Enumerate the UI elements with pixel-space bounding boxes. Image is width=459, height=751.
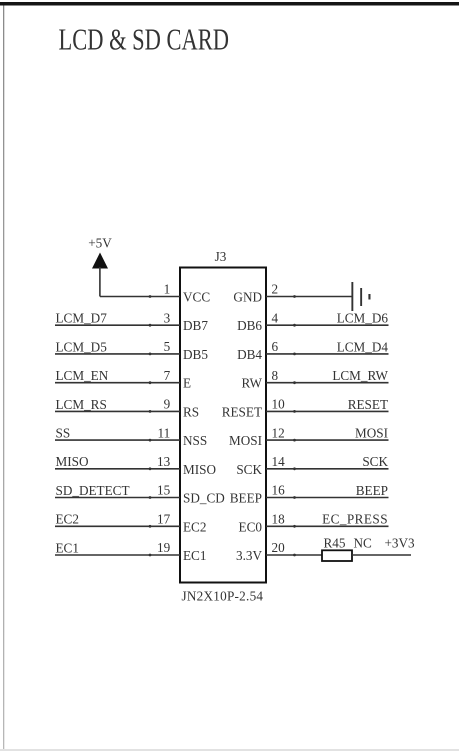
svg-text:LCM_D7: LCM_D7	[56, 311, 108, 326]
svg-text:2: 2	[272, 282, 279, 297]
svg-text:RW: RW	[241, 376, 262, 391]
wire net LCM_D7 to pin 3	[55, 324, 180, 327]
svg-text:NC: NC	[354, 536, 373, 551]
svg-text:13: 13	[157, 454, 171, 469]
svg-text:LCM_RS: LCM_RS	[56, 397, 107, 412]
svg-text:EC_PRESS: EC_PRESS	[322, 512, 388, 527]
svg-text:6: 6	[272, 339, 279, 354]
svg-text:9: 9	[164, 397, 171, 412]
svg-text:LCM_EN: LCM_EN	[56, 368, 109, 383]
svg-text:7: 7	[164, 368, 171, 383]
svg-text:BEEP: BEEP	[356, 483, 388, 498]
svg-text:DB4: DB4	[237, 347, 262, 362]
svg-text:EC0: EC0	[239, 519, 263, 534]
svg-text:14: 14	[272, 454, 286, 469]
wire pin 12 to net MOSI	[266, 439, 389, 442]
svg-text:+3V3: +3V3	[385, 536, 416, 551]
svg-text:DB7: DB7	[183, 318, 208, 333]
wire R45 to +3V3	[352, 554, 411, 556]
wire net LCM_D5 to pin 5	[55, 353, 180, 356]
svg-text:15: 15	[157, 483, 171, 498]
svg-text:SD_DETECT: SD_DETECT	[56, 483, 130, 498]
svg-text:MOSI: MOSI	[355, 426, 388, 441]
svg-text:LCD & SD CARD: LCD & SD CARD	[59, 22, 230, 57]
svg-text:19: 19	[157, 540, 171, 555]
wire pin 2 to ground	[266, 295, 352, 298]
svg-text:BEEP: BEEP	[230, 491, 262, 506]
svg-text:18: 18	[272, 512, 286, 527]
svg-text:SS: SS	[56, 426, 71, 441]
wire net LCM_EN to pin 7	[55, 381, 180, 384]
svg-text:E: E	[183, 376, 191, 391]
wire net SD_DETECT to pin 15	[55, 496, 180, 499]
svg-text:RESET: RESET	[222, 404, 262, 419]
wire pin 8 to net LCM_RW	[266, 381, 389, 384]
svg-text:16: 16	[272, 483, 286, 498]
wire net EC2 to pin 17	[55, 525, 180, 528]
svg-text:RESET: RESET	[348, 397, 388, 412]
svg-text:SD_CD: SD_CD	[183, 491, 225, 506]
wire net EC1 to pin 19	[55, 554, 180, 557]
svg-text:12: 12	[272, 425, 285, 440]
svg-text:EC2: EC2	[56, 512, 79, 527]
wire +5V to pin 1	[100, 295, 180, 298]
svg-text:10: 10	[272, 397, 286, 412]
svg-text:GND: GND	[233, 290, 262, 305]
svg-text:SCK: SCK	[362, 454, 388, 469]
svg-text:J3: J3	[215, 249, 227, 264]
svg-text:MISO: MISO	[183, 462, 216, 477]
svg-text:5: 5	[164, 339, 171, 354]
wire pin 16 to net BEEP	[266, 496, 389, 499]
svg-text:SCK: SCK	[236, 462, 262, 477]
svg-text:8: 8	[272, 368, 279, 383]
wire pin 4 to net LCM_D6	[266, 324, 389, 327]
ground	[351, 282, 370, 311]
svg-text:DB5: DB5	[183, 347, 208, 362]
wire net LCM_RS to pin 9	[55, 410, 180, 413]
svg-text:DB6: DB6	[237, 318, 262, 333]
power +5V	[88, 236, 112, 297]
svg-text:MISO: MISO	[56, 454, 89, 469]
wire net MISO to pin 13	[55, 467, 180, 470]
wire pin 10 to net RESET	[266, 410, 389, 413]
svg-text:4: 4	[272, 310, 279, 325]
svg-text:LCM_RW: LCM_RW	[332, 368, 388, 383]
wire pin 20 to R45	[266, 554, 322, 557]
svg-text:NSS: NSS	[183, 433, 207, 448]
svg-text:EC1: EC1	[183, 548, 206, 563]
connector J3 body	[180, 268, 266, 583]
wire pin 18 to net EC_PRESS	[266, 525, 389, 528]
svg-text:MOSI: MOSI	[229, 433, 262, 448]
svg-text:JN2X10P-2.54: JN2X10P-2.54	[182, 589, 264, 604]
svg-text:+5V: +5V	[88, 236, 112, 251]
svg-text:1: 1	[164, 282, 171, 297]
svg-text:LCM_D6: LCM_D6	[337, 311, 389, 326]
svg-text:VCC: VCC	[183, 290, 210, 305]
wire pin 14 to net SCK	[266, 467, 389, 470]
svg-text:EC1: EC1	[56, 540, 79, 555]
svg-text:11: 11	[157, 425, 170, 440]
svg-text:3: 3	[164, 310, 171, 325]
wire pin 6 to net LCM_D4	[266, 353, 389, 356]
svg-text:LCM_D5: LCM_D5	[56, 339, 108, 354]
svg-text:20: 20	[272, 540, 286, 555]
svg-text:17: 17	[157, 512, 171, 527]
resistor R45	[322, 550, 352, 561]
svg-text:R45: R45	[324, 536, 346, 551]
svg-text:3.3V: 3.3V	[236, 548, 262, 563]
svg-text:RS: RS	[183, 404, 199, 419]
wire net SS to pin 11	[55, 439, 180, 442]
svg-text:LCM_D4: LCM_D4	[337, 339, 389, 354]
svg-text:EC2: EC2	[183, 519, 206, 534]
